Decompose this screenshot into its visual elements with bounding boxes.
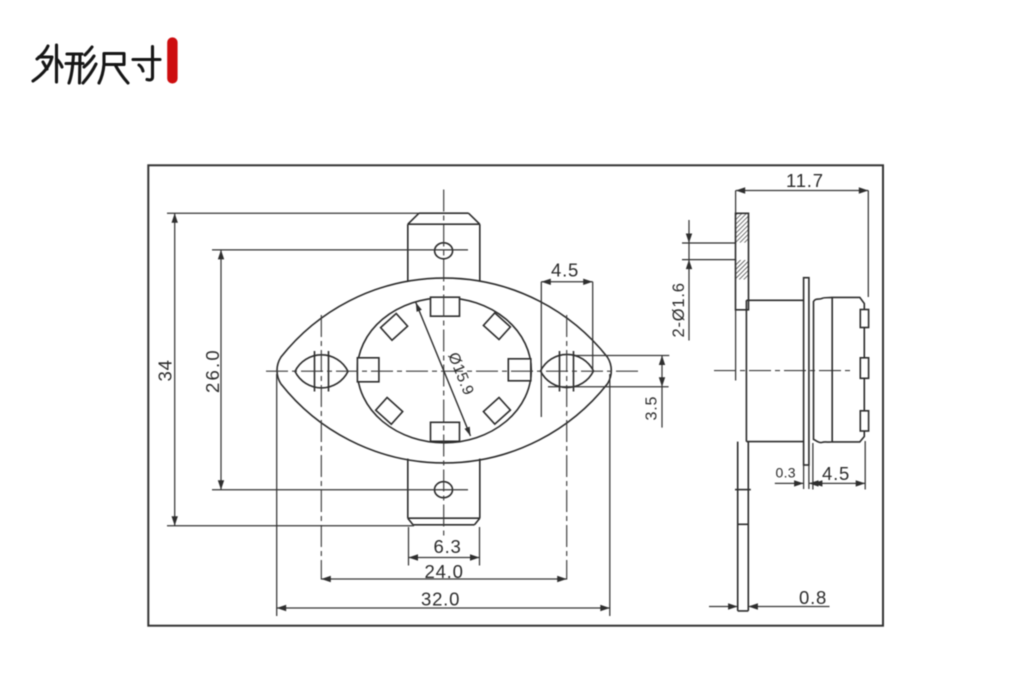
char 形 xyxy=(66,47,96,83)
dim 3.5 line xyxy=(661,356,663,428)
svg-text:3.5: 3.5 xyxy=(644,396,661,421)
svg-text:34: 34 xyxy=(155,359,176,381)
svg-text:11.7: 11.7 xyxy=(786,170,824,191)
notch lower-left xyxy=(376,398,403,425)
flange plate (side) xyxy=(804,278,809,465)
top tab xyxy=(408,213,480,281)
dim 4.5 top: ext+line xyxy=(541,282,592,417)
flange outline xyxy=(277,278,611,463)
mounting hole right chords xyxy=(560,351,574,392)
centerline mount right / 24.0 ext xyxy=(566,315,568,580)
top terminal hole xyxy=(435,243,453,259)
char 外 xyxy=(33,45,62,82)
dim 6.3 ext+line xyxy=(409,527,480,566)
char 寸 xyxy=(133,47,160,80)
bottom terminal hole xyxy=(435,482,453,498)
svg-text:Ø15.9: Ø15.9 xyxy=(444,350,477,398)
diameter line Ø15.9 xyxy=(416,303,471,437)
centerline mount left / 24.0 ext xyxy=(320,315,322,580)
dim 32.0 ext+line xyxy=(277,374,610,616)
top terminal tab (side) xyxy=(736,213,749,309)
body (side) xyxy=(746,300,803,441)
arrows side view xyxy=(686,187,869,609)
svg-text:0.8: 0.8 xyxy=(799,587,827,608)
mounting hole left chords xyxy=(315,351,329,392)
svg-text:6.3: 6.3 xyxy=(434,536,462,557)
cap (side) xyxy=(814,297,865,442)
notch upper-left xyxy=(381,314,408,341)
h centerline left view xyxy=(266,370,639,372)
v centerline left view xyxy=(443,190,445,537)
terminal hole lines (side) xyxy=(682,243,736,260)
svg-text:26.0: 26.0 xyxy=(202,348,223,393)
svg-text:24.0: 24.0 xyxy=(425,561,464,582)
mounting hole left xyxy=(295,355,348,388)
notch upper-right xyxy=(483,313,510,340)
tick at bottom hole center xyxy=(735,489,751,491)
dim 0.8 lines xyxy=(709,606,830,608)
centerlines xyxy=(266,190,852,580)
border frame xyxy=(148,165,883,625)
dim texts left view xyxy=(155,260,661,610)
cap seam xyxy=(831,297,833,442)
dim 24.0 line xyxy=(321,578,566,580)
dim 26.0 ext lines xyxy=(212,250,468,490)
cap bump middle xyxy=(860,358,868,379)
notch left xyxy=(357,358,379,382)
dim 26.0 line xyxy=(220,250,222,490)
h centerline side view xyxy=(714,370,852,372)
dim 11.7 line+ext xyxy=(736,191,869,381)
bottom terminal tab (side) xyxy=(738,442,749,611)
mounting hole right xyxy=(541,354,594,387)
svg-text:4.5: 4.5 xyxy=(551,260,579,281)
cap bump top xyxy=(860,310,868,328)
char 尺 xyxy=(99,54,128,84)
dim 34 ext lines xyxy=(167,213,419,526)
notch top xyxy=(431,297,460,316)
svg-text:2-Ø1.6: 2-Ø1.6 xyxy=(670,282,688,337)
tick at flange plane xyxy=(738,523,749,525)
notch lower-right xyxy=(483,397,510,424)
dim 0.3 / 4.5 lines+ext xyxy=(775,441,865,490)
notch bottom xyxy=(431,422,460,441)
notch right xyxy=(508,359,531,381)
title 外形尺寸 (drawn strokes) xyxy=(33,45,160,83)
bottom tab xyxy=(408,459,480,525)
dim 3.5 ext lines xyxy=(548,356,669,387)
red title bar xyxy=(167,37,177,83)
svg-text:32.0: 32.0 xyxy=(421,589,460,610)
dim 34 line xyxy=(174,213,176,526)
arrows left view xyxy=(172,213,666,611)
cap bump bottom xyxy=(860,411,868,431)
body circle (ellipse) xyxy=(357,298,531,443)
svg-text:0.3: 0.3 xyxy=(776,465,796,481)
dim texts side view xyxy=(670,170,850,608)
svg-text:4.5: 4.5 xyxy=(822,463,850,484)
dim 2-d1.6 line xyxy=(688,220,690,341)
